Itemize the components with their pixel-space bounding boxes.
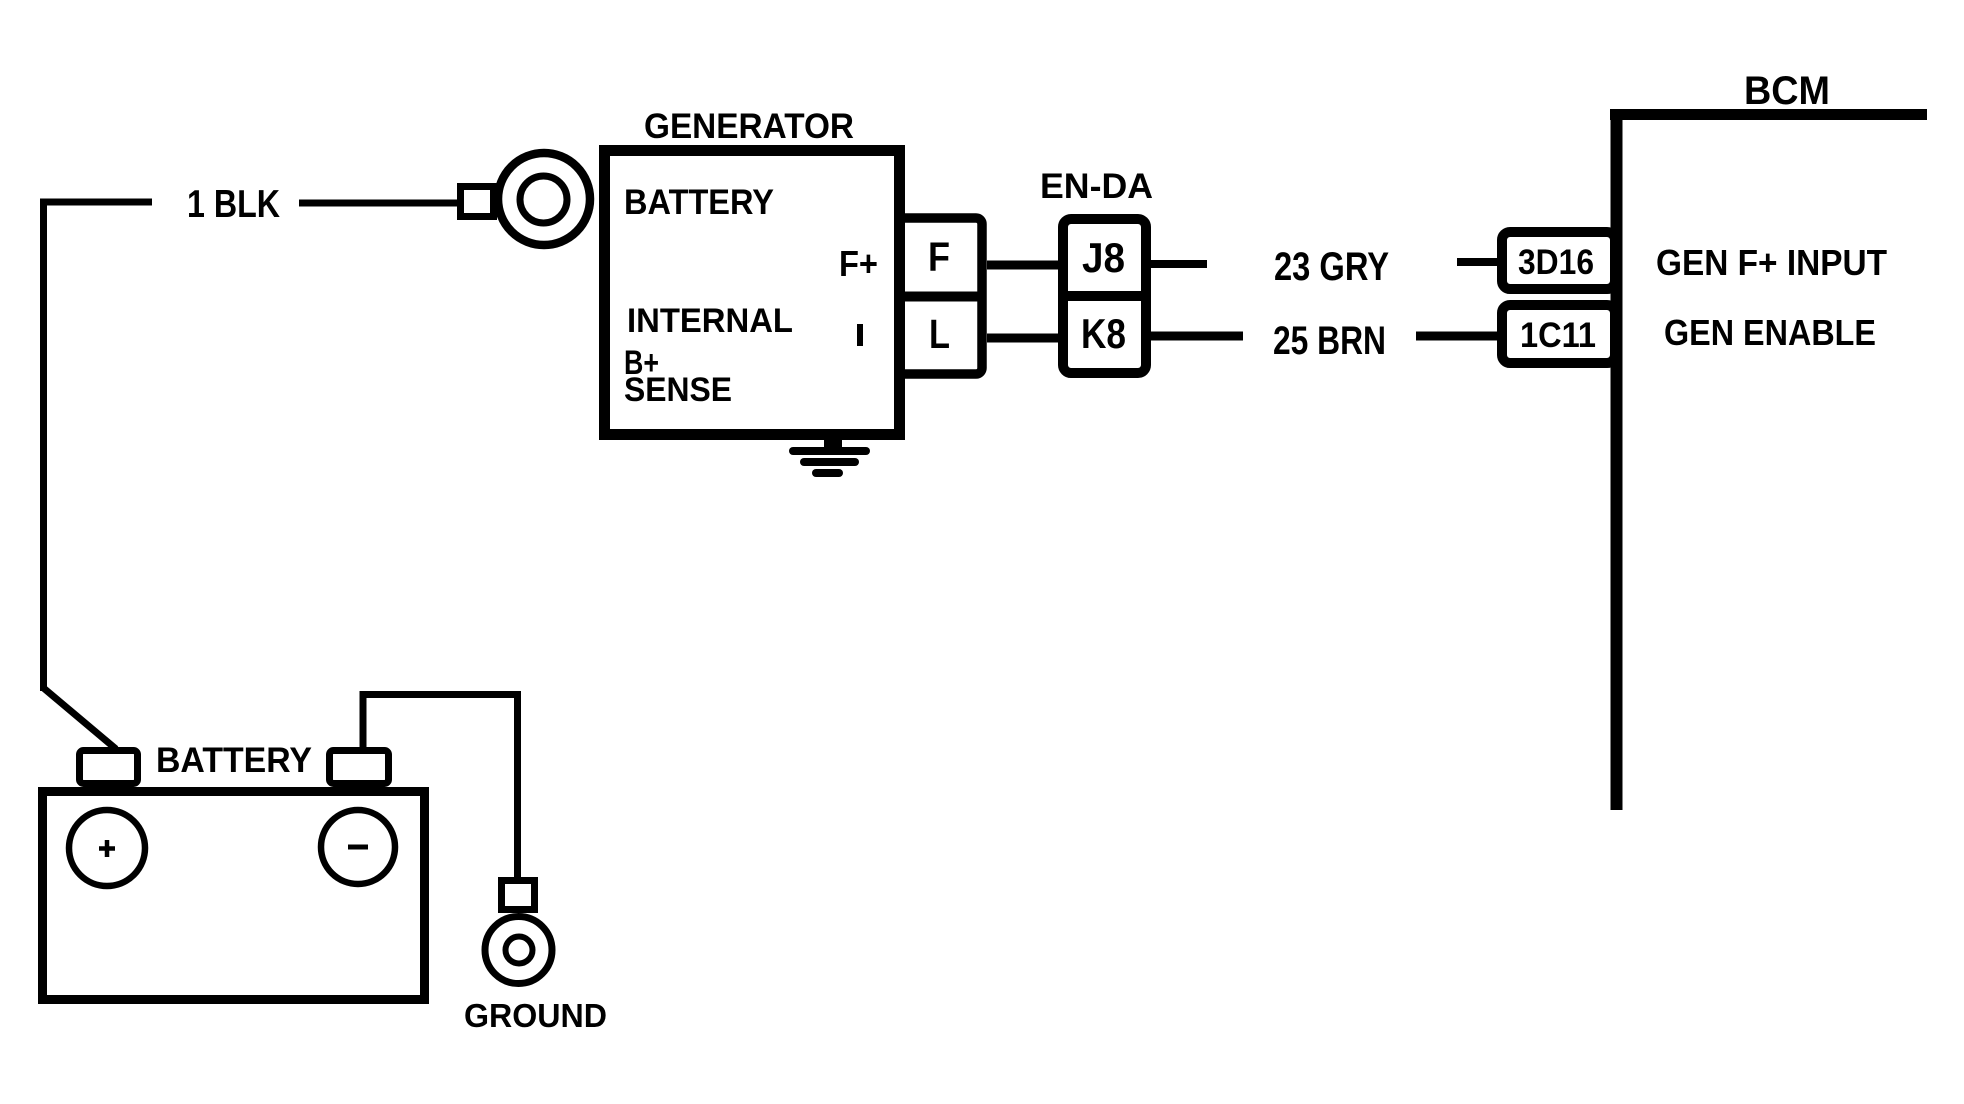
svg-text:GENERATOR: GENERATOR: [644, 107, 854, 146]
svg-text:25 BRN: 25 BRN: [1273, 319, 1386, 363]
svg-text:F+: F+: [839, 243, 878, 284]
svg-text:EN-DA: EN-DA: [1040, 167, 1153, 206]
svg-text:SENSE: SENSE: [624, 371, 732, 409]
svg-text:J8: J8: [1082, 234, 1125, 281]
svg-text:GROUND: GROUND: [464, 997, 607, 1034]
svg-text:INTERNAL: INTERNAL: [627, 302, 793, 340]
svg-text:1 BLK: 1 BLK: [187, 183, 280, 226]
svg-text:BATTERY: BATTERY: [624, 183, 774, 222]
svg-text:GEN F+ INPUT: GEN F+ INPUT: [1656, 242, 1887, 283]
svg-text:F: F: [928, 234, 950, 280]
svg-text:K8: K8: [1081, 310, 1126, 357]
svg-text:BCM: BCM: [1744, 69, 1830, 113]
svg-text:BATTERY: BATTERY: [156, 741, 312, 780]
svg-text:GEN ENABLE: GEN ENABLE: [1664, 312, 1876, 353]
svg-text:3D16: 3D16: [1518, 243, 1594, 282]
svg-text:23 GRY: 23 GRY: [1274, 245, 1389, 289]
svg-text:1C11: 1C11: [1520, 316, 1596, 355]
svg-text:L: L: [929, 311, 950, 357]
